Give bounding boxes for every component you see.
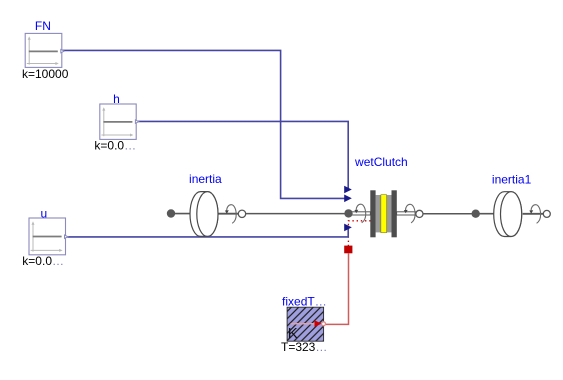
wire fixedT.port to wetClutch.heatPort bbox=[326, 253, 349, 324]
pressure plate right bbox=[392, 190, 397, 237]
shaft rect right bbox=[397, 212, 417, 215]
svg-text:k=0.0…: k=0.0… bbox=[94, 138, 136, 152]
shaft rect left bbox=[349, 212, 370, 215]
flange_a (filled circle) bbox=[472, 210, 480, 218]
svg-text:FN: FN bbox=[35, 19, 51, 33]
inertia1 component bbox=[472, 192, 551, 237]
svg-text:k=10000: k=10000 bbox=[22, 67, 69, 81]
svg-text:wetClutch: wetClutch bbox=[354, 155, 408, 169]
constant block h bbox=[100, 104, 139, 139]
svg-text:inertia1: inertia1 bbox=[492, 172, 532, 186]
wire u.y to wetClutch input 3 bbox=[66, 228, 349, 237]
shaft left bbox=[171, 213, 190, 215]
inertia component bbox=[167, 192, 246, 237]
wire wetClutch.flange_b to inertia1.flange_a bbox=[420, 213, 476, 215]
wetClutch input 1 (triangle) bbox=[344, 186, 352, 194]
wire h.y to wetClutch input 1 bbox=[136, 121, 348, 189]
flange_a (filled circle) bbox=[344, 209, 352, 217]
cylinder body bbox=[190, 192, 218, 237]
flange_b (open circle) bbox=[416, 210, 423, 217]
flange_b (open circle) bbox=[543, 210, 550, 217]
cylinder face bbox=[501, 192, 522, 237]
wetClutch input 2 (triangle) bbox=[344, 195, 352, 203]
svg-text:T=323…: T=323… bbox=[281, 340, 327, 354]
wetClutch component bbox=[344, 190, 423, 237]
flange_a (filled circle) bbox=[167, 209, 175, 217]
cylinder face bbox=[197, 192, 218, 237]
fixedT component bbox=[287, 307, 325, 342]
friction pack gray bbox=[376, 195, 392, 232]
pressure plate left bbox=[370, 190, 375, 237]
wetClutch heatPort dotted line bbox=[348, 221, 372, 246]
friction plate yellow bbox=[381, 195, 387, 233]
wire inertia.flange_b to wetClutch.flange_a bbox=[244, 213, 349, 215]
rotation arrow left bbox=[356, 204, 366, 223]
rotation arrow bbox=[406, 204, 416, 223]
shaft right bbox=[523, 213, 545, 215]
shaft right bbox=[218, 213, 240, 215]
svg-text:fixedT…: fixedT… bbox=[282, 295, 327, 309]
rotation arrow bbox=[531, 205, 541, 224]
wetClutch input 3 (triangle) bbox=[344, 224, 352, 232]
shaft left bbox=[476, 213, 495, 215]
constant block FN bbox=[25, 33, 64, 67]
svg-text:inertia: inertia bbox=[189, 172, 222, 186]
svg-text:h: h bbox=[113, 92, 120, 106]
wetClutch heatPort (red square) bbox=[344, 246, 352, 254]
temperature arrow bbox=[291, 323, 315, 325]
wire FN.y to wetClutch input 2 bbox=[62, 50, 346, 198]
flange_b (open circle) bbox=[238, 210, 245, 217]
svg-text:k=0.0…: k=0.0… bbox=[22, 254, 64, 268]
constant block u bbox=[29, 218, 68, 255]
cylinder body bbox=[494, 192, 522, 237]
rotation arrow bbox=[227, 205, 237, 224]
port circle bbox=[322, 322, 326, 326]
svg-text:u: u bbox=[40, 206, 47, 220]
